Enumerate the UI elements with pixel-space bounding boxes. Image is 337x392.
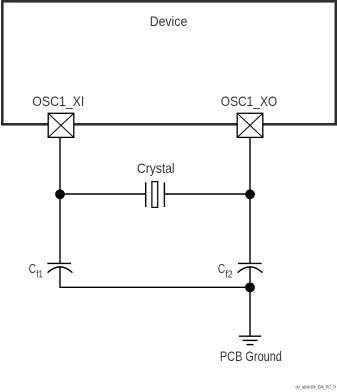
node B junction dot [245, 189, 255, 199]
svg-text:PCB Ground: PCB Ground [220, 348, 282, 364]
svg-text:C: C [29, 261, 37, 276]
svg-text:Crystal: Crystal [137, 160, 175, 176]
wire crystal left segment [60, 193, 146, 195]
wire bottom horizontal [60, 286, 250, 288]
capacitor Cf1 [47, 263, 72, 272]
svg-text:du_abshJM_EM_PC_H: du_abshJM_EM_PC_H [296, 385, 337, 390]
crystal Y1 [146, 182, 165, 208]
ground (PCB ground symbol) [239, 336, 261, 344]
node C junction dot (bottom right) [245, 283, 255, 293]
svg-text:Device: Device [150, 13, 188, 29]
svg-text:f1: f1 [36, 269, 43, 280]
pin OSC1_XO (box with X) [237, 113, 263, 137]
svg-text:OSC1_XI: OSC1_XI [32, 93, 84, 109]
svg-text:OSC1_XO: OSC1_XO [221, 93, 277, 109]
wire left vertical (pin XI to node A) [59, 137, 61, 263]
pin OSC1_XI (box with X) [48, 113, 74, 137]
wire crystal right segment [164, 193, 250, 195]
wire left vertical lower (cap arc to bottom corner) [59, 267, 61, 288]
wire right vertical lower (cap arc to ground) [249, 267, 251, 336]
capacitor Cf2 [238, 263, 263, 272]
svg-text:C: C [218, 261, 226, 276]
wire right vertical (pin XO to node B) [249, 137, 251, 263]
device U1 (Device block) [2, 1, 336, 124]
node A junction dot [55, 189, 65, 199]
svg-text:f2: f2 [225, 269, 233, 280]
